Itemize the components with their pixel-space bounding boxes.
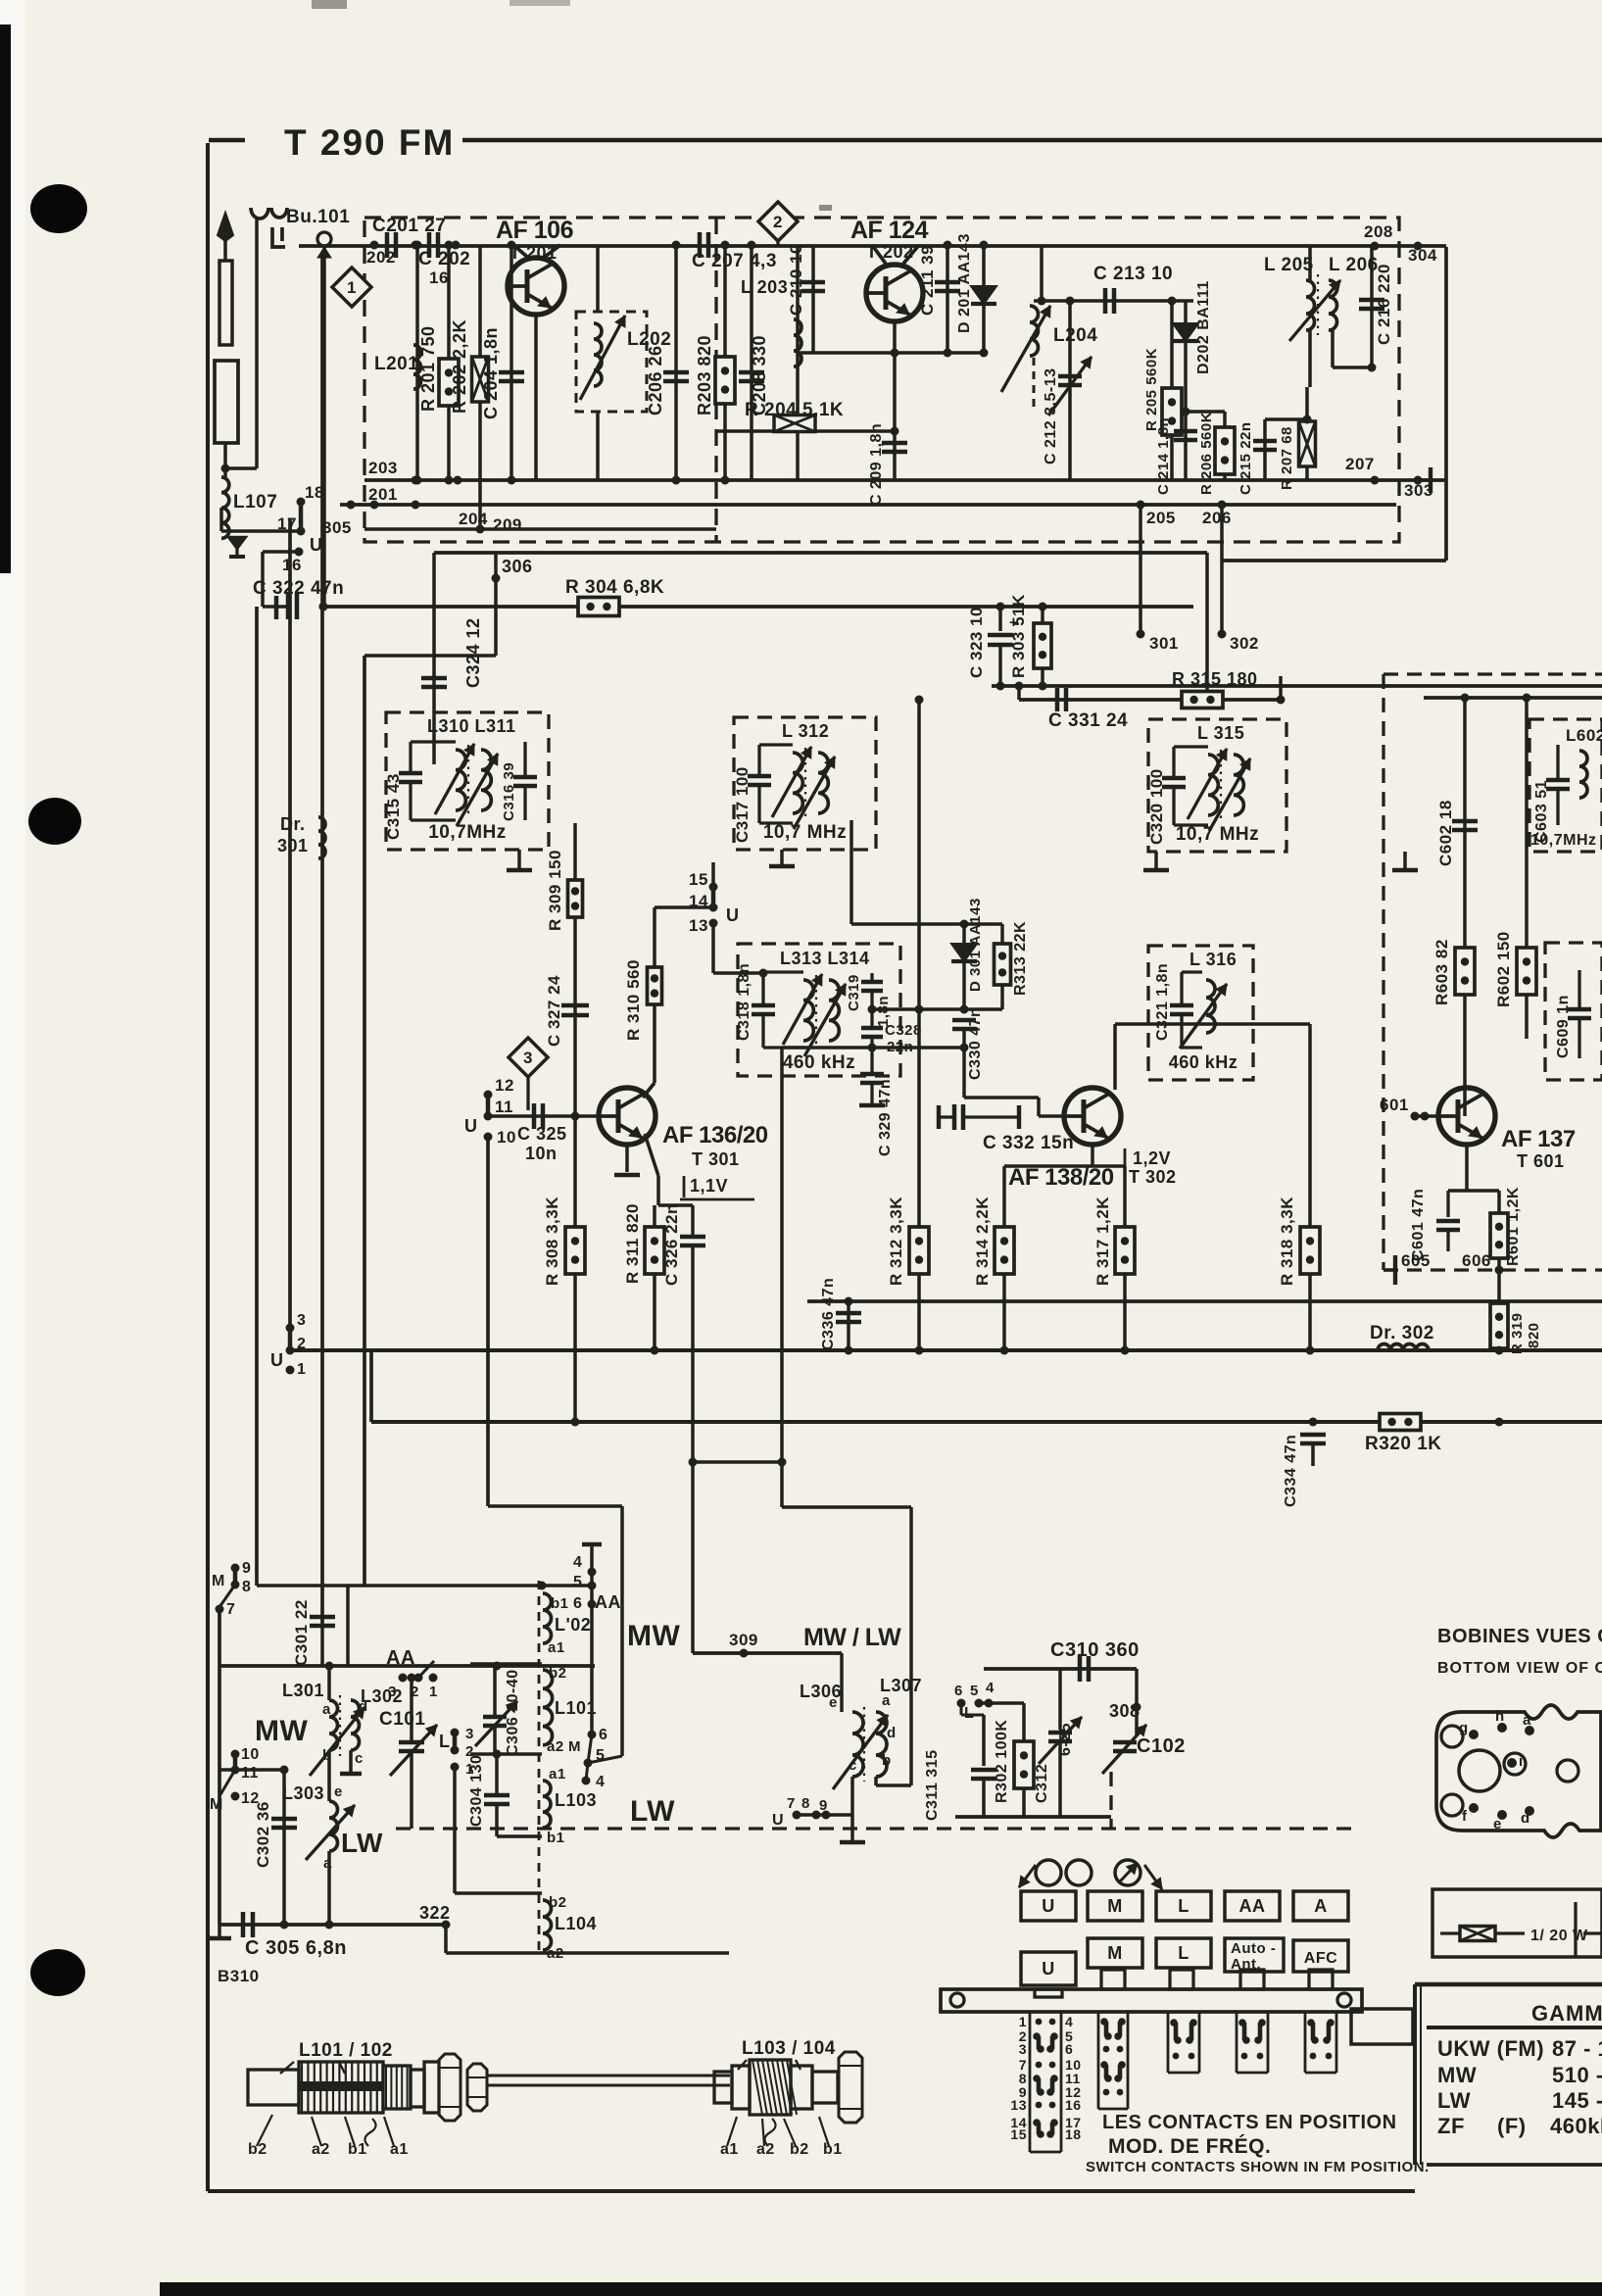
svg-text:C 207 4,3: C 207 4,3 <box>692 251 777 271</box>
svg-text:10,7 MHz: 10,7 MHz <box>763 822 847 843</box>
svg-text:4: 4 <box>596 1774 605 1790</box>
svg-text:Dr. 302: Dr. 302 <box>1370 1323 1434 1343</box>
svg-text:322: 322 <box>419 1903 451 1923</box>
svg-text:SWITCH CONTACTS SHOWN IN FM PO: SWITCH CONTACTS SHOWN IN FM POSITION. <box>1086 2159 1430 2175</box>
svg-text:C 209 1,8n: C 209 1,8n <box>868 423 885 506</box>
svg-text:3: 3 <box>297 1312 306 1329</box>
svg-text:C201 27: C201 27 <box>372 216 446 236</box>
svg-text:C 329 47n: C 329 47n <box>877 1079 894 1156</box>
svg-text:C317 100: C317 100 <box>733 766 752 843</box>
svg-text:10: 10 <box>497 1128 516 1147</box>
svg-text:L313 L314: L313 L314 <box>780 949 870 968</box>
svg-text:C 331 24: C 331 24 <box>1048 710 1128 731</box>
svg-text:R 310 560: R 310 560 <box>624 959 643 1041</box>
svg-text:145 -: 145 - <box>1552 2088 1602 2113</box>
svg-text:1: 1 <box>297 1361 306 1378</box>
svg-text:AA: AA <box>386 1647 415 1669</box>
svg-text:T 202: T 202 <box>866 242 914 262</box>
svg-text:6: 6 <box>1065 2041 1073 2057</box>
svg-text:b2: b2 <box>790 2141 809 2158</box>
svg-text:GAMME: GAMME <box>1531 2001 1602 2026</box>
svg-text:87 - 1(: 87 - 1( <box>1552 2036 1602 2061</box>
svg-text:LW: LW <box>630 1795 675 1828</box>
svg-text:8: 8 <box>242 1579 251 1595</box>
svg-text:U: U <box>464 1116 478 1136</box>
svg-text:18: 18 <box>1065 2126 1082 2142</box>
svg-text:MOD. DE FRÉQ.: MOD. DE FRÉQ. <box>1108 2135 1271 2158</box>
svg-text:C320 100: C320 100 <box>1147 768 1166 845</box>
svg-text:c: c <box>849 1757 857 1774</box>
svg-text:10n: 10n <box>525 1144 558 1163</box>
svg-text:D 301 AA143: D 301 AA143 <box>967 898 984 992</box>
svg-text:C101: C101 <box>379 1709 425 1730</box>
svg-text:C601 47n: C601 47n <box>1410 1189 1427 1261</box>
svg-text:3: 3 <box>465 1726 474 1742</box>
svg-text:h: h <box>1495 1708 1505 1725</box>
svg-text:b: b <box>882 1752 892 1769</box>
svg-text:6: 6 <box>599 1727 607 1743</box>
svg-text:R302 100K: R302 100K <box>994 1720 1010 1803</box>
svg-text:R 202 2,2K: R 202 2,2K <box>450 319 469 414</box>
svg-text:13: 13 <box>689 916 708 935</box>
svg-text:C 211 39: C 211 39 <box>918 245 937 316</box>
svg-text:C206 26: C206 26 <box>646 345 665 415</box>
svg-text:10: 10 <box>241 1746 260 1763</box>
svg-text:7: 7 <box>226 1601 235 1618</box>
svg-text:C 305 6,8n: C 305 6,8n <box>245 1937 347 1959</box>
svg-text:1,1V: 1,1V <box>690 1176 728 1196</box>
svg-text:1,2V: 1,2V <box>1133 1148 1171 1168</box>
svg-text:U: U <box>772 1812 784 1829</box>
svg-text:a: a <box>322 1701 331 1718</box>
svg-text:C 213 10: C 213 10 <box>1093 264 1173 284</box>
svg-text:M: M <box>212 1573 225 1589</box>
svg-text:L 205: L 205 <box>1264 255 1314 275</box>
svg-text:5: 5 <box>573 1574 582 1590</box>
svg-text:A: A <box>1314 1896 1328 1916</box>
svg-text:a1: a1 <box>549 1766 566 1783</box>
svg-text:C 326 22n: C 326 22n <box>662 1203 681 1286</box>
svg-text:d: d <box>887 1725 897 1741</box>
svg-text:L310 L311: L310 L311 <box>427 716 516 736</box>
svg-text:C 327 24: C 327 24 <box>545 975 563 1047</box>
svg-text:3: 3 <box>388 1684 397 1700</box>
svg-text:C 214 1,8n: C 214 1,8n <box>1155 417 1172 495</box>
svg-text:L306: L306 <box>800 1682 842 1701</box>
svg-text:207: 207 <box>1345 455 1375 473</box>
svg-text:301: 301 <box>277 836 309 855</box>
svg-text:601: 601 <box>1380 1096 1409 1114</box>
svg-text:C609 1n: C609 1n <box>1555 995 1572 1058</box>
svg-text:R603 82: R603 82 <box>1432 939 1451 1005</box>
svg-text:308: 308 <box>1109 1701 1141 1721</box>
svg-text:AA: AA <box>1239 1896 1266 1916</box>
svg-text:C 204 1,8n: C 204 1,8n <box>481 327 501 419</box>
svg-text:b1: b1 <box>823 2141 843 2158</box>
svg-text:4: 4 <box>986 1680 995 1696</box>
svg-text:304: 304 <box>1408 246 1437 265</box>
svg-text:C 210 10: C 210 10 <box>787 244 805 316</box>
svg-text:d: d <box>1521 1810 1530 1827</box>
svg-text:R 308 3,3K: R 308 3,3K <box>543 1197 561 1286</box>
svg-text:6-25: 6-25 <box>1057 1723 1074 1756</box>
svg-text:T 201: T 201 <box>510 243 558 263</box>
svg-text:302: 302 <box>1230 634 1259 653</box>
svg-text:3: 3 <box>1019 2041 1027 2057</box>
svg-text:b1: b1 <box>547 1830 565 1846</box>
svg-text:16: 16 <box>1065 2097 1082 2113</box>
svg-text:a2: a2 <box>547 1738 564 1755</box>
svg-text:LW: LW <box>341 1828 383 1858</box>
svg-text:ZF: ZF <box>1437 2114 1465 2138</box>
svg-text:16: 16 <box>282 556 302 574</box>
svg-text:C336 47n: C336 47n <box>820 1278 837 1350</box>
svg-text:L303: L303 <box>282 1783 324 1803</box>
svg-text:2: 2 <box>297 1336 306 1352</box>
svg-text:U: U <box>1042 1896 1055 1916</box>
svg-text:BOTTOM VIEW OF CC: BOTTOM VIEW OF CC <box>1437 1660 1602 1677</box>
svg-text:R 303 51K: R 303 51K <box>1009 594 1028 678</box>
svg-text:R313 22K: R313 22K <box>1012 921 1029 996</box>
svg-text:C 323 10: C 323 10 <box>967 607 986 678</box>
svg-text:e: e <box>1493 1816 1502 1832</box>
svg-text:b1: b1 <box>348 2141 367 2158</box>
svg-text:Dr.: Dr. <box>280 814 306 834</box>
svg-text:11: 11 <box>495 1098 513 1116</box>
svg-text:MW / LW: MW / LW <box>803 1624 901 1651</box>
svg-text:L: L <box>1178 1943 1189 1963</box>
svg-text:a: a <box>1523 1712 1531 1729</box>
svg-text:205: 205 <box>1146 509 1176 527</box>
svg-text:1: 1 <box>1019 2014 1027 2029</box>
svg-text:L 312: L 312 <box>782 721 829 741</box>
svg-text:C334 47n: C334 47n <box>1283 1435 1299 1507</box>
svg-text:MW: MW <box>1437 2063 1477 2087</box>
svg-text:460 kHz: 460 kHz <box>1169 1052 1238 1072</box>
svg-text:11: 11 <box>241 1765 259 1782</box>
svg-text:5: 5 <box>970 1683 979 1699</box>
svg-text:M: M <box>210 1796 223 1813</box>
svg-text:C 215 22n: C 215 22n <box>1238 421 1254 495</box>
svg-text:C 202: C 202 <box>418 249 470 269</box>
svg-text:C328: C328 <box>885 1022 922 1039</box>
svg-text:C 212 3,5-13: C 212 3,5-13 <box>1043 367 1059 464</box>
svg-text:a1: a1 <box>720 2141 739 2158</box>
svg-text:L: L <box>439 1732 451 1751</box>
svg-text:8: 8 <box>801 1795 810 1812</box>
svg-text:D 201 AA143: D 201 AA143 <box>956 233 973 333</box>
svg-text:4: 4 <box>573 1554 582 1571</box>
svg-text:R602 150: R602 150 <box>1494 931 1513 1007</box>
svg-text:M: M <box>1107 1896 1123 1916</box>
svg-text:T 301: T 301 <box>692 1149 740 1169</box>
svg-text:206: 206 <box>1202 509 1232 527</box>
svg-text:C316 39: C316 39 <box>501 762 517 821</box>
svg-text:C310 360: C310 360 <box>1050 1639 1140 1661</box>
svg-text:g: g <box>1459 1720 1469 1736</box>
svg-text:AF 106: AF 106 <box>496 217 573 244</box>
svg-text:15: 15 <box>1010 2126 1027 2142</box>
svg-text:R 314 2,2K: R 314 2,2K <box>973 1197 992 1286</box>
svg-text:C330 47n: C330 47n <box>967 1007 984 1080</box>
svg-text:1: 1 <box>429 1684 438 1700</box>
svg-text:i: i <box>1519 1753 1524 1770</box>
svg-text:R 207 68: R 207 68 <box>1279 426 1295 490</box>
svg-text:LES CONTACTS EN POSITION: LES CONTACTS EN POSITION <box>1102 2112 1397 2133</box>
svg-text:R 319: R 319 <box>1509 1312 1526 1354</box>
svg-text:309: 309 <box>729 1631 758 1649</box>
svg-text:d: d <box>359 1698 368 1715</box>
svg-text:Auto -: Auto - <box>1231 1940 1276 1957</box>
svg-text:204: 204 <box>459 510 488 528</box>
svg-text:17: 17 <box>277 514 297 533</box>
svg-text:R203 820: R203 820 <box>695 335 714 415</box>
svg-text:L204: L204 <box>1053 325 1097 346</box>
svg-text:1/ 20 W: 1/ 20 W <box>1530 1928 1588 1944</box>
svg-text:L307: L307 <box>880 1676 922 1695</box>
svg-text:U: U <box>270 1350 284 1370</box>
svg-text:10,7MHz: 10,7MHz <box>428 822 507 843</box>
svg-text:L: L <box>1178 1896 1189 1916</box>
svg-text:e: e <box>334 1783 343 1800</box>
svg-text:M: M <box>1107 1943 1123 1963</box>
svg-text:c: c <box>355 1750 364 1767</box>
svg-text:R 304 6,8K: R 304 6,8K <box>565 577 664 598</box>
svg-text:15: 15 <box>689 870 708 889</box>
svg-text:R 317 1,2K: R 317 1,2K <box>1093 1197 1112 1286</box>
svg-text:C602 18: C602 18 <box>1436 800 1455 866</box>
svg-text:C 216 220: C 216 220 <box>1375 264 1393 345</box>
svg-text:C 325: C 325 <box>517 1124 567 1144</box>
svg-text:f: f <box>1462 1808 1468 1825</box>
svg-text:C311 315: C311 315 <box>924 1749 941 1821</box>
svg-text:510 -: 510 - <box>1552 2063 1602 2087</box>
svg-text:R 204 5,1K: R 204 5,1K <box>745 400 844 420</box>
svg-text:LW: LW <box>1437 2088 1471 2113</box>
svg-text:R 201 750: R 201 750 <box>418 325 438 412</box>
svg-text:13: 13 <box>1010 2097 1027 2113</box>
svg-text:L 315: L 315 <box>1197 723 1244 743</box>
svg-text:Bu.101: Bu.101 <box>286 207 350 227</box>
svg-text:MW: MW <box>627 1620 680 1652</box>
svg-text:202: 202 <box>366 248 396 267</box>
svg-text:208: 208 <box>1364 222 1393 241</box>
svg-text:b1: b1 <box>551 1595 569 1612</box>
svg-text:R601 1,2K: R601 1,2K <box>1505 1187 1522 1266</box>
svg-text:R 206 560K: R 206 560K <box>1198 412 1215 495</box>
svg-text:209: 209 <box>493 515 522 534</box>
svg-text:b2: b2 <box>549 1894 567 1911</box>
svg-text:C321 1,8n: C321 1,8n <box>1154 963 1171 1041</box>
svg-text:R 315 180: R 315 180 <box>1172 669 1258 689</box>
svg-text:AF 124: AF 124 <box>850 217 929 244</box>
svg-text:6: 6 <box>573 1595 582 1612</box>
svg-text:AF 136/20: AF 136/20 <box>662 1122 768 1148</box>
svg-text:L103: L103 <box>555 1790 597 1810</box>
svg-text:L301: L301 <box>282 1681 324 1700</box>
svg-text:9: 9 <box>819 1797 828 1814</box>
svg-text:R320 1K: R320 1K <box>1365 1434 1442 1454</box>
svg-text:605: 605 <box>1401 1251 1431 1270</box>
svg-text:10,7MHz: 10,7MHz <box>1530 832 1597 849</box>
svg-text:L201: L201 <box>374 354 418 374</box>
svg-text:b2: b2 <box>549 1665 567 1682</box>
svg-text:AA: AA <box>595 1592 621 1612</box>
svg-text:3: 3 <box>523 1049 533 1067</box>
svg-text:T 302: T 302 <box>1129 1167 1177 1187</box>
svg-text:L 316: L 316 <box>1189 950 1237 969</box>
svg-text:B310: B310 <box>218 1967 260 1985</box>
svg-text:22n: 22n <box>887 1039 913 1055</box>
svg-text:9: 9 <box>242 1560 251 1577</box>
svg-text:C304 130: C304 130 <box>468 1755 485 1827</box>
svg-text:R 318 3,3K: R 318 3,3K <box>1278 1197 1296 1286</box>
svg-text:T 601: T 601 <box>1517 1151 1565 1171</box>
svg-text:L107: L107 <box>233 492 277 513</box>
svg-text:12: 12 <box>495 1076 514 1095</box>
svg-text:301: 301 <box>1149 634 1179 653</box>
svg-text:R 312 3,3K: R 312 3,3K <box>887 1197 905 1286</box>
svg-text:a1: a1 <box>548 1639 565 1656</box>
svg-text:C 332 15n: C 332 15n <box>983 1133 1074 1153</box>
svg-text:D202 BA111: D202 BA111 <box>1195 280 1212 374</box>
svg-text:AF 138/20: AF 138/20 <box>1008 1164 1114 1191</box>
svg-text:L'02: L'02 <box>555 1615 591 1635</box>
svg-text:C306 10-40: C306 10-40 <box>505 1669 521 1756</box>
svg-text:460kH: 460kH <box>1550 2114 1602 2138</box>
svg-text:R 311 820: R 311 820 <box>623 1203 642 1284</box>
svg-text:820: 820 <box>1526 1322 1542 1348</box>
svg-text:L103 / 104: L103 / 104 <box>742 2038 836 2059</box>
svg-text:203: 203 <box>368 459 398 477</box>
svg-text:C315 43: C315 43 <box>384 773 403 840</box>
svg-text:7: 7 <box>787 1795 796 1812</box>
svg-text:MW: MW <box>255 1715 308 1747</box>
svg-text:C312: C312 <box>1034 1764 1050 1803</box>
svg-text:BOBINES VUES CC: BOBINES VUES CC <box>1437 1626 1602 1647</box>
svg-text:10,7 MHz: 10,7 MHz <box>1176 824 1259 845</box>
svg-text:C324 12: C324 12 <box>463 617 483 688</box>
svg-text:16: 16 <box>429 269 449 287</box>
svg-text:U: U <box>726 905 740 925</box>
svg-text:U: U <box>1042 1959 1055 1978</box>
svg-text:C319: C319 <box>846 974 862 1011</box>
svg-text:R 309 150: R 309 150 <box>546 850 564 931</box>
svg-text:(F): (F) <box>1497 2114 1527 2138</box>
svg-text:606: 606 <box>1462 1251 1491 1270</box>
svg-text:306: 306 <box>502 557 533 576</box>
svg-text:AF 137: AF 137 <box>1501 1126 1576 1152</box>
svg-text:2: 2 <box>773 213 783 231</box>
svg-text:L104: L104 <box>555 1914 597 1933</box>
svg-text:L 203: L 203 <box>741 277 788 297</box>
svg-text:L101 / 102: L101 / 102 <box>299 2040 393 2061</box>
svg-text:AFC: AFC <box>1304 1950 1337 1967</box>
svg-text:6: 6 <box>954 1683 963 1699</box>
svg-text:4: 4 <box>1065 2014 1073 2029</box>
svg-text:UKW (FM): UKW (FM) <box>1437 2036 1544 2061</box>
svg-text:305: 305 <box>322 518 352 537</box>
svg-text:L602: L602 <box>1566 726 1602 745</box>
svg-text:C301 22: C301 22 <box>292 1599 311 1666</box>
svg-text:C102: C102 <box>1137 1735 1186 1757</box>
svg-text:T 290 FM: T 290 FM <box>284 122 455 163</box>
svg-text:C302 36: C302 36 <box>254 1801 272 1868</box>
svg-text:1: 1 <box>347 278 357 297</box>
svg-text:460 kHz: 460 kHz <box>783 1052 855 1073</box>
svg-text:M: M <box>568 1738 581 1755</box>
